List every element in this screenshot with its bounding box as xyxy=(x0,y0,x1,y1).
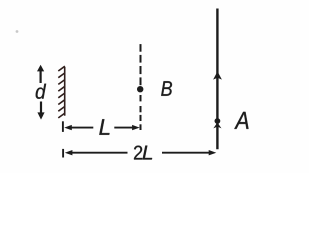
wire (vertical conductor) xyxy=(216,9,218,150)
dimension 2L left tick xyxy=(62,149,64,158)
faint speck artifact xyxy=(16,30,19,33)
dimension L left tick xyxy=(62,121,64,132)
label A xyxy=(234,112,248,129)
dimension d down-arrow xyxy=(37,102,44,120)
dimension 2L right arrow xyxy=(162,150,216,155)
current arrowhead upper xyxy=(213,71,222,79)
label 2L xyxy=(134,146,152,160)
label B xyxy=(161,81,172,96)
point B dot xyxy=(137,86,143,92)
dashed vertical line through B xyxy=(140,44,142,130)
current arrowhead at A xyxy=(213,123,221,129)
hatched rod of length d xyxy=(58,66,65,118)
point A dot xyxy=(215,118,221,124)
label d xyxy=(36,84,46,99)
dimension d up-arrow xyxy=(37,65,44,83)
label L xyxy=(99,119,109,135)
dimension L right arrow xyxy=(114,125,139,130)
dimension L left arrow xyxy=(64,125,93,130)
dimension 2L left arrow xyxy=(65,150,128,155)
